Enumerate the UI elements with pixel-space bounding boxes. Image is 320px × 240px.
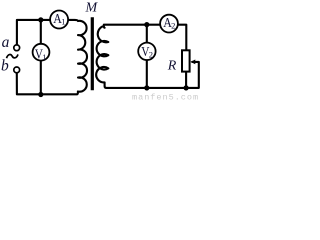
AC source tilde [7,54,19,58]
wire left loop with primary coil (5 bumps bulging right toward core) [17,20,87,94]
voltmeter V2 [138,43,155,60]
svg-text:M: M [85,1,99,16]
svg-text:1: 1 [61,16,65,26]
svg-text:a: a [2,34,10,51]
node top-left junction [38,17,43,22]
wire resistor bottom [185,72,187,88]
svg-text:2: 2 [149,49,153,59]
node top-right junction [144,22,149,27]
resistor R [182,50,190,71]
voltmeter V1 [33,44,50,61]
terminal b [14,67,20,73]
wiper arrow head [191,60,196,65]
svg-text:manfen5.com: manfen5.com [132,93,199,102]
svg-text:1: 1 [42,52,46,62]
wire V2 branch [146,25,148,88]
ammeter A2 [160,15,178,33]
ammeter A1 [50,11,68,29]
node bottom-right junction V2 [144,85,149,90]
svg-text:b: b [1,57,9,74]
terminal a [14,45,20,51]
svg-text:R: R [167,59,177,74]
secondary coil (4 bumps bulging left toward core) and bottom wire to R wiper [96,26,199,88]
svg-text:2: 2 [171,21,175,31]
wire V1 branch [40,20,42,95]
wire secondary top to A2 and down to resistor [104,25,187,50]
node resistor bottom junction [184,85,189,90]
node bottom-left junction [38,92,43,97]
transformer core [91,17,94,90]
